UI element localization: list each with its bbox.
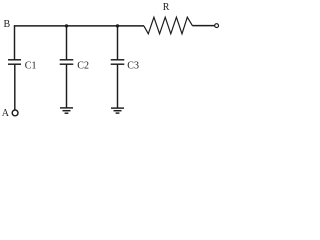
svg-text:C1: C1 xyxy=(25,60,37,71)
wire: resistor to output terminal xyxy=(193,25,215,27)
junction dot at C3 top xyxy=(116,24,119,27)
svg-text:R: R xyxy=(163,2,170,13)
junction dot at C2 top xyxy=(65,24,68,27)
output terminal (open circle) xyxy=(215,24,219,28)
svg-text:C3: C3 xyxy=(127,60,139,71)
capacitor C3 xyxy=(111,60,125,64)
wire: C3 bottom plate down to ground xyxy=(117,64,119,108)
wire: vertical from top wire down to C2 xyxy=(66,26,68,60)
wire: top horizontal from B corner to resistor xyxy=(14,25,144,27)
ground under C3 xyxy=(111,108,124,113)
wire: vertical from top wire down to C3 xyxy=(117,26,119,60)
resistor R (zigzag) xyxy=(144,17,193,34)
svg-text:C2: C2 xyxy=(77,60,89,71)
svg-text:B: B xyxy=(4,19,11,30)
capacitor C1 xyxy=(8,60,21,64)
ground under C2 xyxy=(60,108,73,113)
wire: left vertical from B corner down to C1 xyxy=(14,25,16,60)
wire: C2 bottom plate down to ground xyxy=(66,64,68,108)
wire: C1 bottom plate down to terminal A xyxy=(14,64,16,110)
svg-text:A: A xyxy=(2,108,10,119)
capacitor C2 xyxy=(60,60,74,64)
terminal A (open circle) xyxy=(12,110,18,116)
